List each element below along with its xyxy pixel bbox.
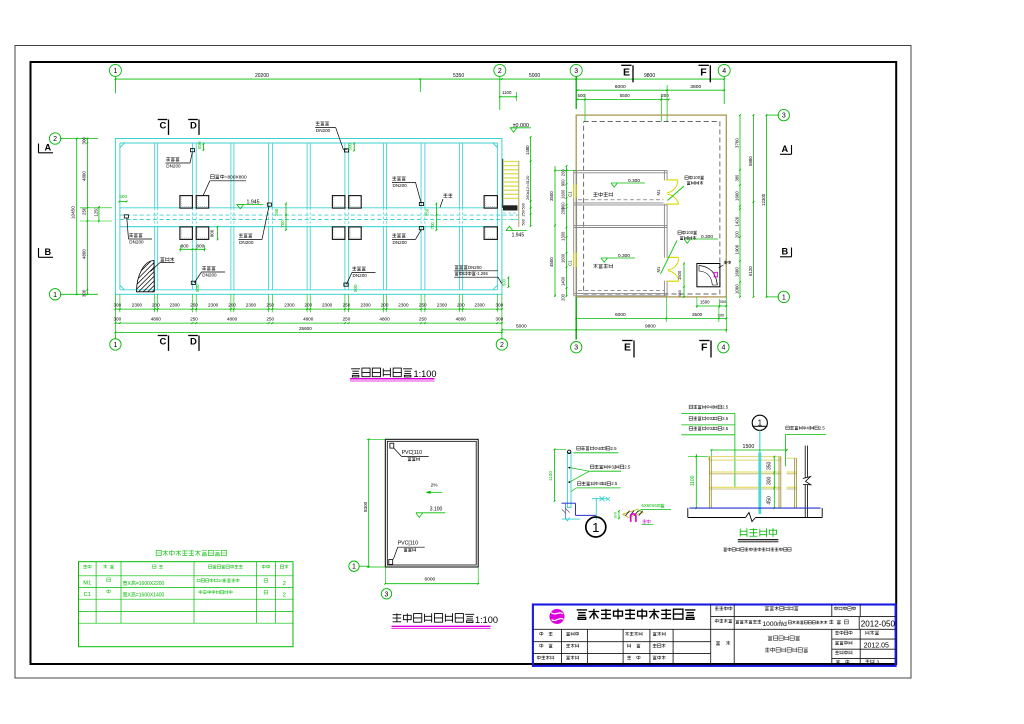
svg-text:A: A — [782, 144, 789, 154]
svg-text:B: B — [782, 247, 789, 257]
company logo — [550, 609, 565, 624]
axis bubble 3 right — [778, 109, 789, 120]
svg-text:A: A — [45, 143, 52, 153]
detail bubble 1 big — [586, 517, 606, 537]
svg-text:=800X800: =800X800 — [225, 174, 247, 180]
svg-text:Φ40: Φ40 — [803, 425, 812, 430]
svg-text:20200: 20200 — [255, 73, 269, 79]
svg-text:200: 200 — [152, 303, 160, 308]
railing title — [740, 528, 776, 537]
building top sub dims 500 5500 200 — [576, 99, 669, 101]
door M1 room2 arcs — [668, 258, 679, 270]
svg-text:DN200: DN200 — [166, 164, 181, 169]
svg-text:4800: 4800 — [303, 317, 314, 322]
railing top rail — [709, 457, 781, 461]
railing mid rail 1 — [709, 471, 781, 473]
rail left label 1 — [577, 446, 617, 451]
svg-text:.3: .3 — [875, 659, 879, 665]
label drain hole DN200 bottom mid — [352, 267, 365, 271]
pillars at axis D divider — [180, 196, 193, 209]
label drain hole DN200 lower d3 — [202, 266, 215, 270]
svg-text:M1: M1 — [83, 580, 91, 586]
roof dim 8300 — [368, 439, 370, 567]
dim text 5350 — [453, 73, 464, 79]
svg-text:M1: M1 — [656, 189, 661, 195]
title block grid — [710, 605, 712, 666]
axis bubble 2 left — [49, 133, 60, 144]
svg-text:200: 200 — [228, 303, 236, 308]
svg-text:DN200: DN200 — [393, 183, 408, 188]
svg-text:250: 250 — [419, 317, 427, 322]
svg-text:D: D — [190, 121, 197, 132]
svg-text:260x12=3120: 260x12=3120 — [525, 175, 530, 200]
dim text 9800 — [644, 73, 655, 79]
pit dim 650 — [683, 287, 685, 297]
cell issue date — [835, 641, 852, 645]
svg-text:2300: 2300 — [170, 303, 181, 308]
roof axis bubble 1 — [349, 561, 359, 571]
svg-text:500: 500 — [521, 219, 525, 225]
svg-text:3: 3 — [574, 68, 578, 75]
svg-text:12300: 12300 — [761, 193, 766, 206]
svg-text:900: 900 — [561, 179, 566, 187]
svg-text:2300: 2300 — [284, 303, 295, 308]
svg-text:M1: M1 — [656, 266, 661, 272]
svg-text:1: 1 — [592, 520, 599, 535]
step iron magenta clamp — [631, 514, 636, 522]
drawing name line1 — [768, 636, 800, 641]
svg-text:1400: 1400 — [561, 276, 566, 286]
label drain hole DN200 top mid — [316, 121, 329, 125]
step iron detail plate — [623, 509, 643, 517]
svg-text:2.5: 2.5 — [722, 416, 729, 421]
bottom dim row3 25600 — [115, 332, 502, 334]
pit dim 1500 — [683, 264, 685, 287]
svg-text:D: D — [190, 337, 197, 348]
building outer wall tan — [576, 115, 726, 297]
svg-text:200: 200 — [561, 293, 566, 301]
svg-text:500: 500 — [521, 203, 525, 209]
axis bubble 1 top — [109, 64, 121, 76]
svg-text:1480: 1480 — [525, 145, 530, 155]
rail left wall section blue — [562, 502, 576, 504]
rail detail left dim 1100 — [554, 449, 556, 501]
svg-text:250: 250 — [274, 208, 279, 216]
svg-text:2300: 2300 — [475, 303, 486, 308]
dim 1250 channel — [98, 207, 100, 221]
svg-text:500: 500 — [195, 284, 200, 292]
svg-text:300: 300 — [767, 476, 773, 485]
railing subtitle — [723, 548, 791, 552]
label drain hole DN200 top-left — [166, 157, 179, 161]
svg-text:4800: 4800 — [151, 317, 162, 322]
svg-text:1: 1 — [782, 294, 786, 301]
bottom dim row2 — [115, 322, 502, 324]
dims 800 800 under pillars — [180, 248, 204, 250]
label sump pit 800X800 — [210, 174, 247, 180]
svg-text:1600: 1600 — [734, 191, 739, 201]
svg-text:DN200: DN200 — [129, 240, 144, 245]
step iron label — [642, 503, 665, 508]
svg-text:5000: 5000 — [529, 73, 540, 79]
svg-text:2: 2 — [498, 68, 502, 75]
svg-text:2300: 2300 — [437, 303, 448, 308]
railing dim 1500 — [711, 449, 786, 451]
svg-text:1: 1 — [53, 292, 57, 299]
step iron label2 — [643, 520, 651, 524]
railing base blue line — [689, 507, 820, 509]
svg-text:3.100: 3.100 — [430, 506, 443, 512]
title block outer border — [533, 605, 896, 666]
svg-text:250: 250 — [419, 303, 427, 308]
rail left bottom line — [562, 518, 580, 520]
svg-text:3: 3 — [385, 591, 389, 598]
rail left X marks — [600, 496, 605, 501]
ladder lower dashes — [503, 212, 519, 214]
title roof plan — [393, 613, 475, 622]
svg-text:4: 4 — [721, 345, 725, 352]
roof plan inner rect — [387, 441, 476, 565]
svg-text:300: 300 — [114, 303, 122, 308]
svg-text:500: 500 — [119, 194, 127, 199]
svg-text:1: 1 — [113, 68, 117, 75]
svg-text:2.5: 2.5 — [611, 481, 618, 486]
step iron dim 300 — [618, 511, 620, 518]
pool inner wall bottom — [120, 289, 498, 291]
pool corner chamfers — [120, 143, 125, 148]
svg-text:800: 800 — [181, 243, 189, 248]
axis bubble 4 bottom — [718, 342, 729, 353]
svg-text:500: 500 — [348, 142, 353, 150]
bottom extension lines — [119, 294, 121, 312]
ladder rungs — [503, 161, 518, 163]
table frame — [79, 562, 294, 647]
svg-text:2.5: 2.5 — [610, 446, 617, 451]
svg-text:2.5: 2.5 — [624, 464, 631, 469]
svg-text:-1.265: -1.265 — [476, 271, 489, 276]
svg-text:3800: 3800 — [690, 84, 701, 90]
svg-text:3500: 3500 — [549, 191, 554, 201]
svg-text:1.945: 1.945 — [512, 232, 525, 238]
svg-text:1100: 1100 — [690, 475, 696, 486]
svg-text:2300: 2300 — [208, 303, 219, 308]
svg-text:PVC[110: PVC[110 — [398, 541, 418, 547]
svg-text:9800: 9800 — [645, 324, 656, 330]
svg-text:4800: 4800 — [227, 317, 238, 322]
svg-text:200: 200 — [734, 230, 739, 238]
svg-text:10450: 10450 — [71, 206, 76, 219]
svg-text:C1: C1 — [568, 260, 573, 266]
room2 name — [593, 264, 612, 269]
svg-text:9800: 9800 — [644, 73, 655, 79]
room block walls — [573, 170, 575, 295]
svg-text:1300: 1300 — [561, 231, 566, 241]
roof dim 6000 — [385, 583, 478, 585]
svg-text:E: E — [624, 342, 631, 354]
svg-text:250: 250 — [266, 303, 274, 308]
svg-text:Φ32: Φ32 — [608, 464, 617, 469]
roof drain bottom-left — [389, 560, 393, 565]
svg-text:PVC[110: PVC[110 — [402, 450, 422, 456]
svg-text:700: 700 — [430, 222, 435, 230]
svg-text:宽X高=1600X1400: 宽X高=1600X1400 — [123, 592, 165, 599]
svg-text:500: 500 — [197, 141, 202, 149]
rail left break lines — [562, 509, 570, 514]
svg-text:1900: 1900 — [734, 244, 739, 254]
svg-text:1: 1 — [758, 418, 763, 427]
centre channel wall bottom — [120, 226, 498, 228]
svg-text:1600: 1600 — [561, 253, 566, 263]
window C1 room2 — [573, 253, 575, 267]
svg-text:Φ32: Φ32 — [706, 416, 715, 421]
svg-text:700: 700 — [280, 220, 285, 228]
cell label drawing name — [716, 641, 730, 645]
svg-text:Φ32: Φ32 — [706, 426, 715, 431]
svg-text:F: F — [701, 342, 708, 354]
building right dim lines — [739, 115, 741, 297]
cell label project name — [715, 619, 732, 623]
svg-text:±0.000: ±0.000 — [513, 123, 529, 129]
railing centre post cyan — [758, 452, 761, 514]
svg-text:500: 500 — [353, 284, 358, 292]
svg-text:2: 2 — [500, 342, 504, 349]
svg-text:3: 3 — [782, 113, 786, 120]
axis bubble 1 left — [49, 289, 60, 300]
svg-text:300: 300 — [613, 511, 618, 518]
room1 name — [593, 192, 612, 197]
channel hidden dashed lines — [120, 214, 519, 216]
svg-text:250: 250 — [343, 303, 351, 308]
svg-text:C1: C1 — [84, 592, 91, 598]
railing rails right stub — [787, 457, 797, 459]
railing label leaders — [734, 413, 736, 487]
svg-text:5000: 5000 — [516, 324, 527, 330]
svg-text:2300: 2300 — [322, 303, 333, 308]
label inlet hole DN200 bottom right — [455, 265, 482, 270]
roof slope 2% — [431, 483, 439, 489]
svg-text:800: 800 — [210, 229, 215, 237]
axis bubble 3 bottom — [571, 342, 582, 353]
svg-text:DN200: DN200 — [393, 240, 408, 245]
svg-text:250: 250 — [190, 303, 198, 308]
svg-text:2300: 2300 — [132, 303, 143, 308]
room1 hidden dashed line — [578, 199, 664, 201]
svg-text:1000: 1000 — [734, 284, 739, 294]
svg-text:350: 350 — [767, 461, 773, 470]
svg-text:2.5: 2.5 — [722, 404, 729, 409]
svg-text:B: B — [45, 247, 52, 257]
ladder dim 1480 — [530, 137, 532, 161]
svg-text:C1: C1 — [568, 191, 573, 197]
building left dim lines — [554, 166, 556, 297]
roof axis bubble 3 — [381, 589, 391, 599]
building bottom extension lines — [575, 297, 577, 340]
svg-text:DN200: DN200 — [353, 273, 368, 278]
dim 1100 below axis2 — [500, 96, 517, 98]
pool left dim lines — [76, 139, 78, 295]
svg-text:C: C — [160, 337, 167, 348]
svg-text:2300: 2300 — [398, 303, 409, 308]
door M1 room1 leaves — [666, 179, 678, 181]
building top sub dims 6000 3800 — [576, 89, 724, 91]
bottom dim row1 — [115, 308, 502, 310]
svg-text:1: 1 — [352, 564, 356, 571]
pool inner wall left — [119, 143, 121, 290]
svg-text:250: 250 — [521, 210, 525, 216]
svg-text:1500: 1500 — [677, 270, 682, 280]
tick stem 20200-5350 — [419, 79, 421, 92]
building roof dashed outline — [584, 122, 720, 294]
svg-text:1: 1 — [113, 342, 117, 349]
pit ladder magenta — [714, 272, 717, 277]
cell revise date — [835, 651, 852, 655]
svg-text:300: 300 — [114, 317, 122, 322]
ladder dims 500 250 500 — [530, 201, 532, 226]
svg-text:4: 4 — [722, 68, 726, 75]
door opening gaps — [663, 180, 667, 203]
table header row — [83, 565, 91, 569]
svg-text:8300: 8300 — [363, 501, 368, 512]
roof drain top-left — [390, 443, 394, 448]
svg-text:500: 500 — [502, 278, 507, 286]
svg-text:1500: 1500 — [700, 299, 710, 304]
cell drawing number — [836, 660, 849, 664]
svg-text:250: 250 — [266, 317, 274, 322]
cell label approval no — [834, 606, 855, 610]
door M1 room1 arcs — [667, 180, 678, 193]
svg-text:1100: 1100 — [502, 90, 512, 95]
ladder dark tread — [503, 205, 518, 210]
drawing name line2 — [765, 647, 808, 652]
svg-text:250: 250 — [82, 207, 87, 215]
svg-text:6000: 6000 — [425, 576, 436, 582]
svg-text:4800: 4800 — [82, 249, 87, 259]
label drain hole DN200 mid lower — [392, 233, 405, 237]
label drain hole DN200 at d4 — [239, 233, 252, 237]
svg-text:1420: 1420 — [734, 216, 739, 226]
top dimension line — [115, 78, 724, 80]
svg-text:1100: 1100 — [548, 471, 553, 481]
label steel mesh — [160, 257, 174, 261]
svg-text:450: 450 — [767, 496, 773, 505]
railing wall right — [804, 446, 806, 518]
label drain hole DN200 mid upper — [392, 176, 405, 180]
svg-text:1:100: 1:100 — [475, 615, 498, 625]
sump pit square — [697, 264, 720, 287]
svg-text:1:100: 1:100 — [414, 369, 437, 379]
centre channel wall top — [120, 207, 498, 209]
svg-text:250: 250 — [424, 208, 429, 216]
svg-text:200: 200 — [381, 303, 389, 308]
pool inner wall top — [120, 142, 498, 144]
svg-text:200: 200 — [457, 303, 465, 308]
svg-text:5880: 5880 — [748, 156, 753, 166]
svg-text:100: 100 — [693, 175, 701, 180]
svg-text:C: C — [160, 121, 167, 132]
svg-text:2.5: 2.5 — [722, 426, 729, 431]
railing dims 350 300 450 — [773, 457, 775, 509]
railing wall break — [803, 478, 810, 485]
svg-text:300: 300 — [496, 303, 504, 308]
signature rows left — [540, 632, 553, 636]
svg-text:2.5: 2.5 — [819, 425, 826, 430]
rail left slab cyan — [592, 498, 607, 500]
cell design stage — [835, 631, 852, 635]
svg-text:2012-050: 2012-050 — [861, 620, 896, 629]
title pool plan — [351, 368, 412, 377]
railing post far right — [794, 458, 796, 508]
svg-text:4800: 4800 — [456, 317, 467, 322]
svg-text:300: 300 — [82, 289, 87, 297]
svg-text:5350: 5350 — [453, 73, 464, 79]
svg-text:DN200: DN200 — [239, 240, 254, 245]
svg-text:4500: 4500 — [549, 257, 554, 267]
svg-text:2: 2 — [53, 136, 57, 143]
svg-text:6000: 6000 — [615, 84, 626, 90]
pool inner wall right — [496, 143, 498, 290]
svg-text:500: 500 — [578, 93, 586, 98]
ladder rails — [502, 159, 504, 208]
svg-text:1600: 1600 — [561, 189, 566, 199]
svg-text:100: 100 — [686, 230, 694, 235]
building bottom dims 6000 3500 300 — [576, 317, 726, 319]
svg-text:650: 650 — [678, 290, 682, 296]
svg-text:DN200: DN200 — [468, 265, 482, 270]
svg-text:300: 300 — [496, 317, 504, 322]
railing dim 1100 left — [695, 454, 697, 508]
railing labels top-left — [689, 404, 729, 409]
pillars at right wall — [484, 196, 497, 209]
svg-text:300: 300 — [82, 137, 87, 145]
svg-text:DN200: DN200 — [202, 273, 217, 278]
axis bubble 4 top — [718, 64, 730, 76]
svg-text:2300: 2300 — [246, 303, 257, 308]
rail left label 3 — [577, 481, 617, 486]
pool outer wall — [115, 139, 502, 295]
project name value — [735, 620, 761, 624]
svg-text:3: 3 — [574, 345, 578, 352]
door sill label room1 — [685, 175, 704, 180]
inner thick border — [31, 62, 897, 664]
rail left label 2 — [590, 464, 630, 469]
railing mid rail 2 — [709, 486, 781, 488]
svg-text:4800: 4800 — [82, 171, 87, 181]
svg-text:800: 800 — [196, 243, 204, 248]
svg-text:1600: 1600 — [734, 267, 739, 277]
svg-text:Φ40: Φ40 — [594, 446, 603, 451]
svg-text:200: 200 — [661, 93, 669, 98]
axis bubble 2 top — [494, 64, 506, 76]
svg-text:E: E — [623, 66, 630, 78]
svg-text:1500: 1500 — [743, 444, 755, 450]
dim text 5000 — [529, 73, 540, 79]
svg-text:25600: 25600 — [299, 326, 312, 331]
svg-text:6120: 6120 — [748, 266, 753, 276]
roof plan outer rect — [385, 439, 478, 567]
svg-text:F: F — [700, 66, 707, 78]
svg-text:3700: 3700 — [734, 138, 739, 148]
svg-text:5500: 5500 — [620, 93, 631, 98]
svg-text:Φ40: Φ40 — [706, 404, 715, 409]
svg-text:380: 380 — [734, 174, 739, 182]
svg-text:3500: 3500 — [692, 312, 703, 317]
label drain hole DN200 left — [129, 233, 142, 237]
svg-text:250: 250 — [190, 317, 198, 322]
rail detail left post — [567, 453, 571, 508]
room2 hidden dashed line — [578, 290, 664, 292]
cell label construction unit — [715, 606, 732, 610]
svg-text:6000: 6000 — [615, 312, 626, 318]
